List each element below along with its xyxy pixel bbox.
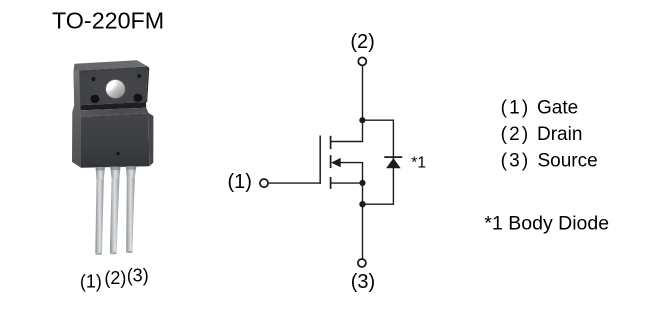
terminal (3) circle — [358, 259, 366, 267]
package groove — [80, 102, 146, 110]
svg-text:(3): (3) — [351, 271, 375, 293]
wire diode branch — [362, 120, 393, 204]
lead top shadows — [96, 167, 105, 171]
svg-text:(1): (1) — [227, 171, 251, 193]
svg-text:(2): (2) — [104, 268, 126, 288]
terminal (1) circle — [260, 179, 268, 187]
junction source/diode — [359, 201, 365, 207]
package body dimple — [116, 152, 119, 155]
package lower hole right — [134, 94, 143, 102]
terminal (2) circle — [358, 57, 366, 65]
package lower hole left — [90, 95, 99, 103]
junction source/body — [359, 180, 365, 186]
pin 3 lead — [126, 166, 136, 178]
pin 1 lead — [96, 167, 105, 180]
package mounting hole — [103, 77, 126, 99]
package small pilot dot left — [91, 77, 95, 81]
body diode *1 — [384, 157, 402, 168]
svg-text:(2)Drain: (2)Drain — [501, 124, 583, 145]
svg-text:(3): (3) — [127, 265, 149, 285]
wire source horizontal — [331, 182, 363, 184]
svg-text:(3)Source: (3)Source — [501, 150, 598, 171]
wire drain vertical — [331, 66, 363, 142]
package small pilot dot right — [137, 74, 141, 78]
package tab right side face — [146, 66, 149, 102]
transistor Q1 gate plate — [319, 136, 321, 184]
junction drain/diode — [359, 117, 365, 123]
svg-text:(1)Gate: (1)Gate — [501, 98, 579, 119]
package tab top face — [74, 60, 148, 70]
package molded body right side face — [149, 113, 154, 166]
svg-text:(2): (2) — [350, 31, 374, 53]
package body ledge — [80, 108, 149, 117]
pin 2 lead — [110, 167, 120, 179]
svg-text:(1): (1) — [80, 272, 102, 292]
package tab front face — [74, 66, 148, 105]
wire body connection — [340, 163, 362, 184]
transistor Q1 body arrow — [331, 158, 341, 167]
svg-text:*1: *1 — [411, 155, 426, 172]
wire source vertical — [362, 183, 364, 259]
wire gate horizontal — [269, 182, 320, 184]
transistor Q1 channel middle segment — [330, 155, 332, 168]
svg-text:*1 Body Diode: *1 Body Diode — [484, 213, 609, 235]
transistor Q1 channel bottom segment — [330, 177, 332, 189]
package left side face — [72, 70, 81, 168]
transistor Q1 channel top segment — [330, 136, 332, 149]
package molded body front face — [81, 113, 150, 168]
svg-text:TO-220FM: TO-220FM — [52, 8, 164, 34]
